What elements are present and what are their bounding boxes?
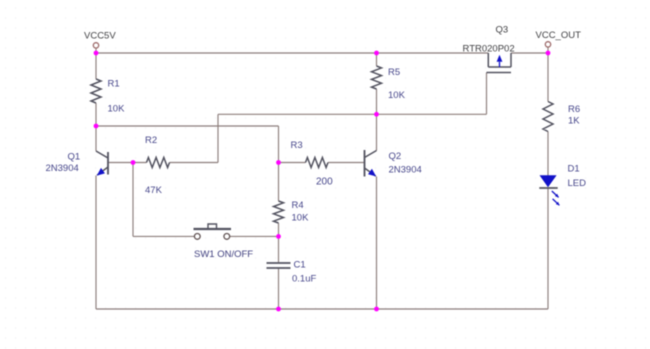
svg-text:RTR020P02: RTR020P02: [463, 44, 515, 55]
svg-text:SW1 ON/OFF: SW1 ON/OFF: [194, 249, 253, 260]
svg-text:Q1: Q1: [68, 152, 81, 163]
svg-text:10K: 10K: [108, 104, 126, 115]
svg-text:R5: R5: [388, 67, 400, 78]
svg-text:200: 200: [316, 177, 333, 188]
svg-text:1K: 1K: [568, 116, 580, 127]
svg-text:R4: R4: [292, 200, 304, 211]
svg-text:47K: 47K: [145, 185, 163, 196]
svg-text:R2: R2: [145, 135, 157, 146]
svg-text:R3: R3: [291, 140, 303, 151]
svg-text:2N3904: 2N3904: [46, 163, 79, 174]
svg-text:VCC5V: VCC5V: [84, 31, 116, 42]
svg-text:D1: D1: [568, 164, 580, 175]
svg-text:C1: C1: [294, 260, 306, 271]
svg-text:R1: R1: [108, 79, 120, 90]
svg-text:R6: R6: [568, 104, 580, 115]
svg-text:LED: LED: [568, 178, 587, 189]
svg-text:Q3: Q3: [496, 25, 509, 36]
svg-text:10K: 10K: [388, 90, 406, 101]
svg-text:10K: 10K: [292, 213, 310, 224]
svg-text:Q2: Q2: [389, 151, 402, 162]
svg-text:VCC_OUT: VCC_OUT: [536, 30, 582, 41]
svg-text:2N3904: 2N3904: [389, 165, 422, 176]
svg-text:0.1uF: 0.1uF: [292, 274, 316, 285]
